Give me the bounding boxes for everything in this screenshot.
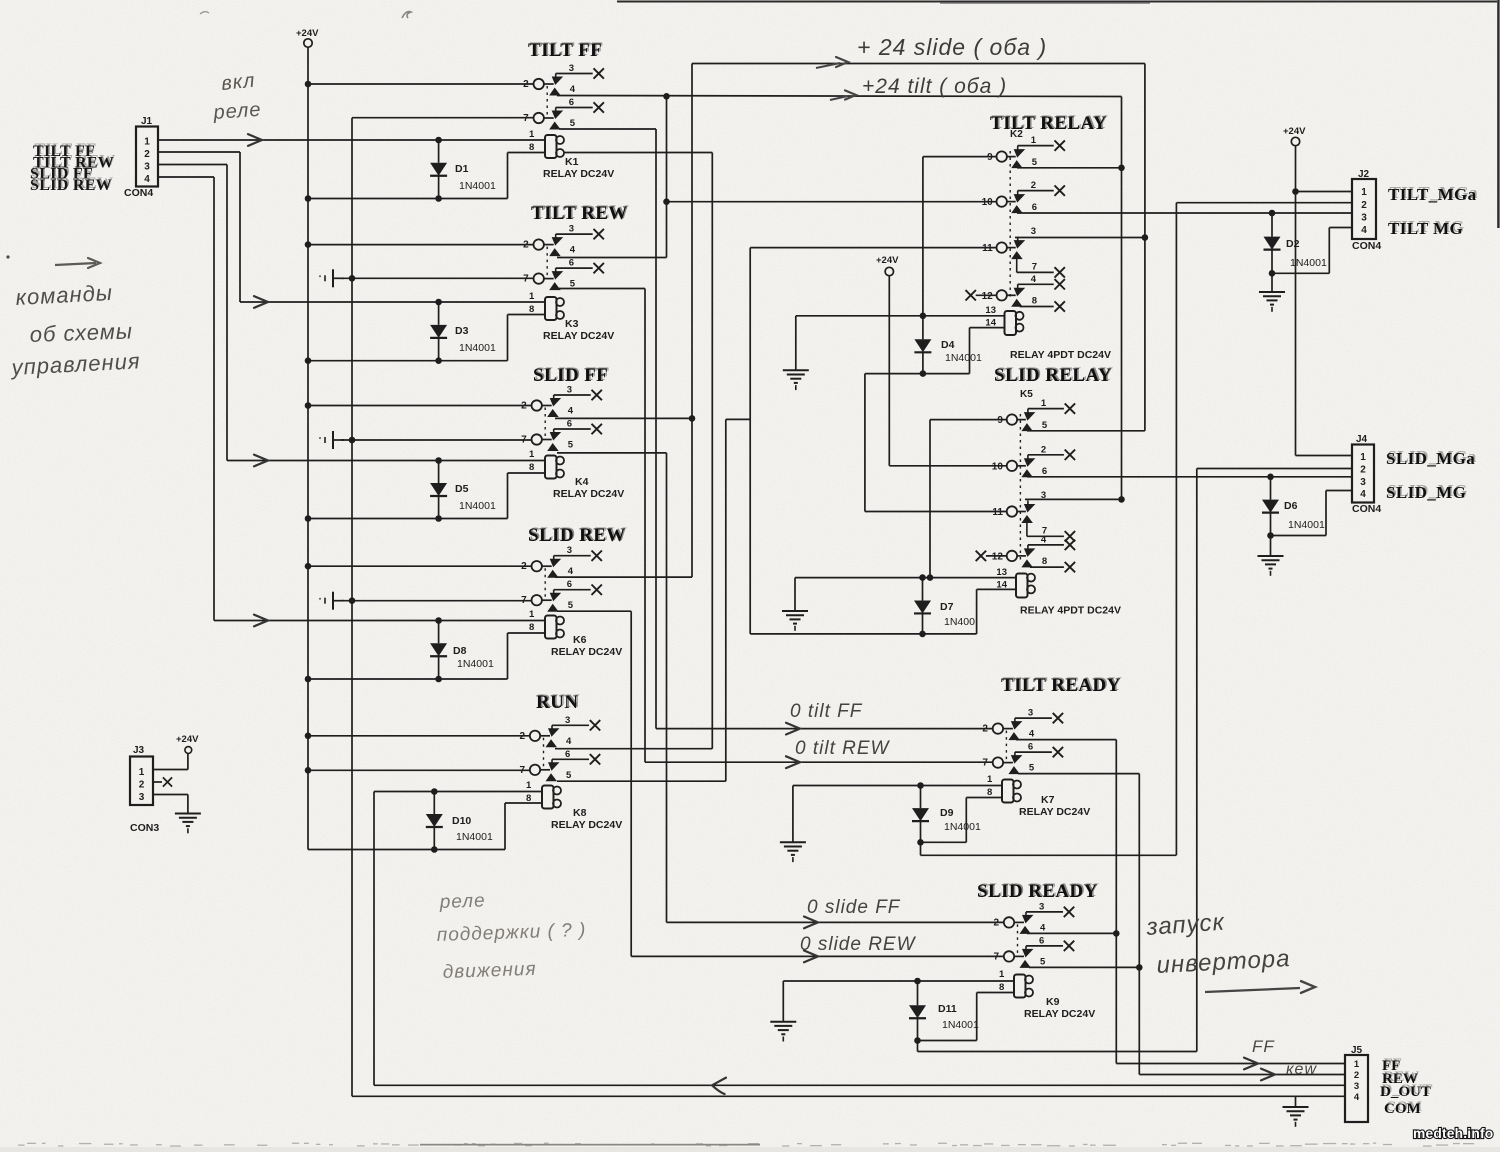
wire: K5 contact5 to +24slide vertical (1027, 430, 1145, 432)
junction D6 bottom (1267, 532, 1274, 539)
0V mark K6 (319, 592, 344, 610)
svg-text:TILT_MGa: TILT_MGa (1388, 185, 1477, 204)
svg-text:D10: D10 (452, 815, 471, 827)
svg-text:+ 24 slide ( оба ): + 24 slide ( оба ) (857, 34, 1047, 60)
relay K5 pole 11 (contacts 3/7) (992, 490, 1075, 542)
svg-text:SLID_MGa: SLID_MGa (1386, 449, 1475, 468)
wire: K7 contact5 to J5 pin2 (REW) (1018, 773, 1139, 775)
ground SLID RELAY coil (782, 611, 808, 631)
junction on +24V bus y=735.8 (305, 733, 312, 740)
wire: bus to K3 pin2 (308, 244, 534, 246)
svg-text:4: 4 (570, 245, 576, 256)
svg-text:2: 2 (144, 149, 150, 160)
wire: 0 tilt FF into K7 pin2 (656, 728, 993, 730)
svg-text:3: 3 (567, 385, 572, 396)
svg-text:2: 2 (1041, 444, 1046, 455)
wire: to K5 pin11 (865, 511, 1007, 513)
relay K2 pole 9 (contacts 1/5) (987, 135, 1065, 168)
junction on +24V bus y=679 (305, 676, 312, 683)
wire: K8 contact5 to relay-hold net (557, 780, 726, 782)
junction on 0V rail y=278.3 (349, 275, 356, 282)
svg-text:6: 6 (569, 258, 574, 269)
svg-text:+24V: +24V (296, 28, 319, 39)
svg-text:0 slide REW: 0 slide REW (800, 934, 917, 955)
scan artifact: bottom speckle band (18, 1143, 1474, 1147)
junction K9-4 (1113, 930, 1120, 937)
relay coil K4 (545, 456, 624, 501)
svg-text:6: 6 (569, 97, 574, 108)
wire: K9 coil pin1 to ground (783, 980, 1014, 982)
svg-text:8: 8 (1042, 556, 1047, 567)
svg-text:1: 1 (144, 137, 150, 148)
svg-text:TILT MG: TILT MG (1388, 219, 1463, 238)
wire: K7 contact4 to J5 pin1 (FF) (1016, 739, 1116, 741)
svg-text:CON4: CON4 (1352, 503, 1381, 515)
diode D9 (1N4001) (912, 787, 981, 842)
svg-text:K2: K2 (1010, 129, 1023, 140)
junction D11 bottom (914, 1037, 921, 1044)
scan artifact: top edge line (617, 1, 1497, 3)
wire: +24V middle to K5 pin10 (888, 276, 890, 466)
svg-text:3: 3 (139, 792, 145, 803)
svg-text:8: 8 (529, 622, 534, 633)
wire: relay-hold net to K2 pin11 (750, 247, 997, 249)
svg-text:K7: K7 (1041, 794, 1055, 806)
connector J5 (1345, 1055, 1368, 1122)
svg-text:3: 3 (1039, 901, 1044, 912)
svg-text:11: 11 (982, 243, 993, 254)
junction on +24V bus y=405.5 (305, 402, 312, 409)
wire: J5 D_OUT riser to K8 coil pin1 (374, 791, 542, 793)
svg-text:2: 2 (139, 780, 145, 791)
svg-text:TILT READY: TILT READY (1001, 675, 1121, 696)
svg-text:3: 3 (144, 162, 150, 173)
junction on +24V bus y=244.6 (305, 241, 312, 248)
svg-text:реле: реле (438, 890, 486, 913)
connector J2 CON4 (1352, 179, 1376, 239)
relay contacts K8 (pins 2/3/4, 7/6/5) (519, 715, 600, 782)
wire: +24V right vertical (1295, 146, 1297, 456)
wire: riser to J2 pin2 (1176, 202, 1352, 204)
svg-text:2: 2 (1360, 465, 1366, 476)
relay contacts K6 (pins 2/3/4, 7/6/5) (521, 545, 602, 612)
svg-text:команды: команды (15, 280, 114, 310)
svg-text:реле: реле (212, 99, 262, 124)
junction on +24V bus y=84 (305, 81, 312, 88)
wire: D4 return down to K5 pin11 (864, 374, 866, 512)
svg-text:FF: FF (1252, 1037, 1275, 1056)
wire: rail to K1 pin7 (352, 117, 534, 119)
wire: K8 contact4 to K1 coil net (555, 748, 712, 750)
svg-text:J1: J1 (141, 116, 153, 127)
svg-text:SLID FF: SLID FF (533, 365, 608, 386)
svg-text:8: 8 (987, 787, 992, 798)
svg-text:6: 6 (1032, 202, 1037, 213)
svg-text:RELAY DC24V: RELAY DC24V (1024, 1008, 1095, 1020)
wire: ground stub on COM (1295, 1096, 1297, 1107)
wire: K5 coil pin13 to ground (795, 577, 1016, 579)
0V mark K3 (319, 269, 344, 287)
svg-text:13: 13 (996, 567, 1007, 578)
svg-text:RUN: RUN (536, 692, 578, 713)
wire: K2 contact3 to +24slide vertical (1015, 237, 1145, 239)
svg-text:5: 5 (1029, 763, 1035, 774)
junction K2-3 (1142, 234, 1149, 241)
svg-text:D1: D1 (455, 163, 469, 175)
svg-text:RELAY 4PDT DC24V: RELAY 4PDT DC24V (1020, 605, 1121, 617)
svg-text:5: 5 (1032, 157, 1038, 168)
wire: J3 pin1 to +24V (153, 769, 188, 771)
mech link K5 (1019, 414, 1021, 560)
svg-text:11: 11 (992, 507, 1003, 518)
svg-text:7: 7 (1032, 261, 1037, 272)
svg-text:D8: D8 (453, 645, 467, 657)
relay contacts K4 (pins 2/3/4, 7/6/5) (521, 385, 602, 452)
svg-text:6: 6 (565, 749, 570, 760)
wire: K5 contact3 to +24tilt vertical (1025, 498, 1122, 500)
svg-text:1: 1 (1361, 187, 1367, 198)
svg-text:D2: D2 (1286, 238, 1300, 250)
svg-text:1: 1 (529, 609, 535, 620)
wire: K2 coil pin14 return (970, 327, 1005, 329)
junction D1 top (435, 137, 442, 144)
svg-text:5: 5 (1040, 956, 1046, 967)
svg-text:6: 6 (1039, 935, 1044, 946)
svg-text:D4: D4 (941, 339, 955, 351)
wire: riser to J4 pin2 (1197, 468, 1352, 470)
svg-text:RELAY DC24V: RELAY DC24V (543, 168, 614, 180)
wire: K4 contact4 to +24 slide vertical (555, 417, 692, 419)
wire: 0 tilt REW into K7 pin7 (645, 761, 993, 763)
svg-text:medteh.info: medteh.info (1413, 1126, 1493, 1141)
junction on +24V bus y=770.3 (305, 767, 312, 774)
ground J3 (175, 814, 201, 834)
svg-text:SLID_MG: SLID_MG (1386, 483, 1466, 502)
junction D8 bottom (435, 676, 442, 683)
svg-text:RELAY DC24V: RELAY DC24V (553, 488, 624, 500)
diode D4 (1N4001) (914, 318, 982, 374)
wire: bus to K8 pin7 (308, 769, 530, 771)
svg-text:1: 1 (526, 780, 532, 791)
svg-text:1N4001: 1N4001 (456, 831, 493, 843)
junction D10 bottom (431, 846, 438, 853)
ground SLID READY (770, 1022, 796, 1042)
relay K5 pole 12 (contacts 4/8, unused) (976, 534, 1075, 572)
junction D2 top (1269, 210, 1276, 217)
svg-text:K4: K4 (575, 476, 589, 488)
relay contacts K3 (pins 2/3/4, 7/6/5) (523, 224, 604, 291)
svg-text:3: 3 (1360, 477, 1366, 488)
junction on 0V rail y=600.7 (349, 597, 356, 604)
diode D6 (1N4001) (1262, 477, 1325, 536)
svg-text:RELAY 4PDT DC24V: RELAY 4PDT DC24V (1010, 349, 1111, 361)
junction on +24V bus y=198.5 (305, 195, 312, 202)
relay coil K8 (542, 786, 622, 832)
svg-text:3: 3 (569, 63, 574, 74)
svg-text:1N400: 1N400 (944, 616, 975, 628)
wire: K5 contact6 to J4 pin3 (SLID MG) (1027, 476, 1352, 478)
relay K2 pole 10 (contacts 2/6) (982, 180, 1065, 213)
relay K5 pole 9 (contacts 1/5) (997, 398, 1075, 431)
svg-text:8: 8 (999, 982, 1004, 993)
wire: bus to K6 pin2 (308, 565, 532, 567)
svg-text:8: 8 (1032, 296, 1037, 307)
svg-text:1: 1 (1360, 452, 1366, 463)
svg-text:COM: COM (1384, 1101, 1421, 1117)
svg-text:TILT RELAY: TILT RELAY (990, 113, 1107, 134)
svg-text:J5: J5 (1351, 1045, 1363, 1056)
wire: K2 coil pin13 to ground (796, 315, 1005, 317)
connector J1 CON4 (136, 127, 158, 187)
svg-text:K3: K3 (565, 318, 579, 330)
wire: bus to K8 pin2 (308, 735, 530, 737)
junction D6 top (1267, 474, 1274, 481)
svg-text:D_OUT: D_OUT (1380, 1084, 1431, 1100)
svg-text:4: 4 (566, 736, 572, 747)
ground TILT READY (780, 842, 806, 862)
svg-text:K8: K8 (573, 807, 587, 819)
svg-text:2: 2 (1031, 180, 1036, 191)
wire: bus to K1 pin2 (308, 83, 534, 85)
svg-text:4: 4 (570, 84, 576, 95)
svg-text:12: 12 (982, 291, 994, 302)
svg-text:1N4001: 1N4001 (459, 342, 496, 354)
wire: K7 coil pin8 return (966, 797, 1002, 799)
junction K5-3 (1118, 496, 1125, 503)
wire: K2 contact6 to J2 pin3 (TILT MG) (1017, 212, 1352, 214)
svg-text:10: 10 (982, 197, 994, 208)
junction D5 bottom (435, 515, 442, 522)
wire: K7 coil pin1 to ground (793, 785, 1002, 787)
wire: K3 contact4 up to +24 tilt (557, 257, 667, 259)
svg-text:6: 6 (567, 579, 572, 590)
wire: K9 contact4 to FF net (1027, 932, 1116, 934)
wire: K4 contact5 down to 0 slide FF (557, 452, 667, 454)
wire: K1 contact4 = +24 tilt line (557, 96, 1122, 97)
svg-text:RELAY DC24V: RELAY DC24V (1019, 806, 1090, 818)
svg-text:4: 4 (1360, 489, 1366, 500)
svg-text:4: 4 (1354, 1092, 1360, 1103)
svg-text:9: 9 (997, 415, 1003, 426)
connector J3 CON3 (130, 757, 153, 806)
wire: J3 pin3 to ground (153, 794, 188, 796)
wire: K4 coil pin8 return (508, 472, 546, 474)
svg-text:5: 5 (1042, 420, 1048, 431)
junction on 0V rail y=440 (349, 437, 356, 444)
svg-text:D6: D6 (1284, 500, 1298, 512)
svg-text:4: 4 (1040, 922, 1046, 933)
wire: K3 contact5 down to 0 tilt REW (559, 288, 645, 290)
relay coil K2 (pins 13/14) (1005, 311, 1017, 335)
junction D5 top (435, 457, 442, 464)
svg-text:4: 4 (1031, 274, 1037, 285)
junction K4-4 on +24 slide vertical (689, 415, 696, 422)
arrow left on D_OUT line (712, 1078, 726, 1094)
relay coil K5 (pins 13/14) (1016, 574, 1028, 598)
junction D11 top (914, 978, 921, 985)
svg-text:1N4001: 1N4001 (1290, 257, 1327, 269)
svg-text:9: 9 (987, 152, 993, 163)
svg-text:10: 10 (992, 461, 1004, 472)
svg-text:3: 3 (1354, 1081, 1359, 1092)
svg-text:1N4001: 1N4001 (945, 352, 982, 364)
svg-text:1: 1 (1041, 398, 1047, 409)
svg-text:5: 5 (570, 118, 576, 129)
diode D3 (1N4001) (430, 302, 496, 361)
ground D6 (1258, 556, 1284, 576)
svg-text:4: 4 (1029, 729, 1035, 740)
wire: K1 contact5 down to 0 tilt FF (559, 128, 656, 130)
wire: J3 pin2 nc (153, 781, 162, 783)
junction K2-5 (1118, 165, 1125, 172)
relay K2 pole 11 (contacts 3/7) (982, 226, 1065, 278)
svg-text:4: 4 (1041, 534, 1047, 545)
svg-text:0 slide FF: 0 slide FF (807, 897, 901, 918)
svg-text:1N4001: 1N4001 (942, 1019, 979, 1031)
svg-text:1N4001: 1N4001 (459, 500, 496, 512)
svg-text:1: 1 (1354, 1059, 1360, 1070)
svg-text:2: 2 (1354, 1070, 1359, 1081)
svg-text:4: 4 (1361, 225, 1367, 236)
wire: K5 pin9 to coil node (930, 419, 1007, 421)
svg-text:1: 1 (529, 129, 535, 140)
scan artifact: pencil squiggle top (402, 12, 411, 18)
svg-text:SLID REW: SLID REW (528, 525, 626, 546)
wire: +24 slide horizontal to right frame (692, 63, 1145, 65)
svg-text:D11: D11 (938, 1003, 957, 1015)
svg-text:13: 13 (985, 305, 996, 316)
relay coil K1 (543, 135, 614, 180)
junction D2 bottom (1269, 270, 1276, 277)
svg-text:3: 3 (1031, 226, 1036, 237)
wire: K9 coil pin8 return (977, 992, 1014, 994)
svg-text:6: 6 (1042, 466, 1047, 477)
arrow FF (1244, 1058, 1258, 1070)
svg-text:K6: K6 (573, 634, 587, 646)
0V mark K4 (319, 431, 344, 449)
relay coil K7 (1002, 780, 1090, 819)
svg-text:8: 8 (529, 142, 534, 153)
svg-text:8: 8 (529, 462, 534, 473)
junction on +24V bus y=518.5 (305, 515, 312, 522)
relay K2 pole 12 (contacts 4/8, unused) (966, 274, 1065, 312)
svg-text:1: 1 (529, 291, 535, 302)
svg-text:об схемы: об схемы (29, 318, 133, 347)
svg-text:4: 4 (568, 406, 574, 417)
svg-text:+24V: +24V (1283, 126, 1306, 137)
svg-text:12: 12 (992, 551, 1004, 562)
connector J4 CON4 (1352, 445, 1374, 503)
svg-text:+24 tilt ( оба ): +24 tilt ( оба ) (862, 75, 1007, 98)
wire: +24 slide vertical x=692 (691, 64, 693, 578)
relay contacts K9 (pins 2/3/4, 7/6/5) (993, 901, 1074, 968)
svg-text:K1: K1 (565, 156, 579, 168)
wire: K6 contact4 to +24 slide vertical end (555, 576, 692, 578)
wire: J1 pin2 to K3 coil pin1 (158, 151, 240, 153)
diode D8 (1N4001) (430, 621, 494, 680)
scan artifact: right edge line (1497, 0, 1499, 228)
svg-text:4: 4 (568, 566, 574, 577)
ground J5 COM (1283, 1107, 1309, 1127)
arrow REW (1261, 1069, 1275, 1081)
svg-text:J4: J4 (1356, 434, 1368, 445)
svg-text:6: 6 (567, 419, 572, 430)
svg-text:RELAY DC24V: RELAY DC24V (551, 819, 622, 831)
wire: 0V rail vertical x=352 (351, 118, 353, 1096)
svg-text:5: 5 (566, 770, 572, 781)
relay contacts K7 (pins 2/3/4, 7/6/5) (982, 708, 1063, 775)
svg-text:0 tilt REW: 0 tilt REW (795, 738, 891, 759)
wire: K6 coil pin8 return (508, 632, 546, 634)
wire: J1 pin1 to K1 coil pin1 (158, 139, 546, 141)
junction D7 top (919, 574, 926, 581)
relay contacts K1 (pins 2/3/4, 7/6/5) (523, 63, 604, 130)
junction J2 pin1 feed (1292, 188, 1299, 195)
svg-text:движения: движения (442, 959, 536, 983)
wire: K9 contact5 to REW net (1029, 966, 1139, 968)
svg-text:+24V: +24V (176, 734, 199, 745)
svg-text:3: 3 (569, 224, 574, 235)
svg-text:D7: D7 (940, 601, 954, 613)
wire: bus to K4 pin2 (308, 405, 532, 407)
svg-text:1: 1 (999, 969, 1005, 980)
svg-text:5: 5 (568, 600, 574, 611)
svg-text:J2: J2 (1358, 169, 1370, 180)
junction D3 bottom (435, 357, 442, 364)
junction D1 bottom (435, 195, 442, 202)
diode D11 (1N4001) (909, 983, 979, 1041)
wire: K5 coil pin14 return (977, 588, 1016, 590)
wire: K8 coil pin8 return (505, 802, 542, 804)
wire: D9 node to J2 pin2 riser (920, 842, 922, 855)
wire: D2 bottom to J2 pin4 (1272, 272, 1329, 274)
wire: J1 pin4 to K6 coil pin1 (158, 176, 214, 178)
diode D1 (1N4001) (430, 140, 496, 199)
svg-text:1N4001: 1N4001 (459, 180, 496, 192)
svg-text:K9: K9 (1046, 996, 1060, 1008)
svg-text:0 tilt FF: 0 tilt FF (790, 701, 863, 722)
mech link K2 (1009, 151, 1011, 299)
svg-text:SLID READY: SLID READY (977, 881, 1098, 902)
svg-text:D3: D3 (455, 325, 469, 337)
svg-text:+24V: +24V (876, 255, 899, 266)
svg-text:RELAY DC24V: RELAY DC24V (543, 330, 614, 342)
diode D2 (1N4001) (1264, 213, 1327, 273)
svg-text:CON4: CON4 (124, 187, 153, 199)
svg-text:1: 1 (1031, 135, 1037, 146)
junction D8 top (435, 617, 442, 624)
wire: K2 pin9 to coil node (923, 156, 997, 158)
wire: K1 coil pin8 return (508, 152, 546, 154)
svg-text:вкл: вкл (220, 70, 256, 95)
wire: D11 node to J4 pin2 riser (917, 1041, 919, 1052)
junction on +24V bus y=360.7 (305, 357, 312, 364)
wire: +24 slide vertical right x=1144.9 (1144, 64, 1146, 430)
relay coil K6 (545, 616, 622, 659)
wire: 0 slide REW into K9 pin7 (631, 955, 1004, 957)
wire: jog to D7 return riser (726, 418, 750, 420)
svg-text:CON4: CON4 (1352, 240, 1381, 252)
wire: K1 coil pin8 to RUN contact4 (x=712) (564, 152, 712, 154)
junction D9 top (917, 782, 924, 789)
relay coil K9 (1014, 975, 1095, 1021)
svg-text:3: 3 (565, 715, 570, 726)
svg-text:D5: D5 (455, 483, 469, 495)
junction D7 bottom (919, 631, 926, 638)
diode D5 (1N4001) (430, 461, 496, 519)
svg-text:1: 1 (139, 767, 145, 778)
wire: +24 tilt vertical x=1121.5 (1121, 97, 1123, 500)
